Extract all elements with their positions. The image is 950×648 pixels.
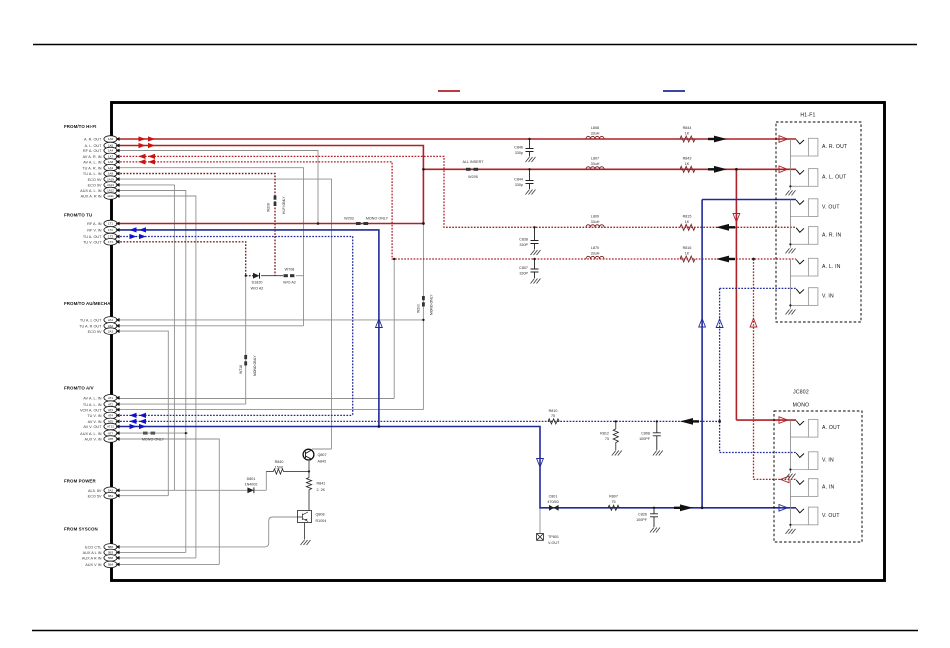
pin 1A4 RF A. OUT xyxy=(83,147,120,154)
svg-text:A. OUT: A. OUT xyxy=(822,425,840,431)
svg-text:D1820: D1820 xyxy=(252,281,263,285)
jack MONO A.IN xyxy=(790,479,834,497)
svg-text:ECO 5V: ECO 5V xyxy=(88,494,102,498)
svg-text:R816: R816 xyxy=(683,246,692,250)
svg-text:1K: 1K xyxy=(685,132,690,136)
svg-text:33uH: 33uH xyxy=(591,220,600,224)
wire V.IN riser blue dashed xyxy=(720,288,796,452)
jumper W206 HI-FI ONLY xyxy=(267,196,287,215)
junction node C844 tap xyxy=(528,168,530,170)
svg-text:330P: 330P xyxy=(519,272,528,276)
pin 1A3 TU A. R. IN xyxy=(82,164,119,171)
svg-text:ALL INSERT: ALL INSERT xyxy=(463,160,485,164)
svg-text:1A9: 1A9 xyxy=(108,172,114,176)
capacitor C801 series xyxy=(547,494,558,510)
junction node base R840 xyxy=(308,470,310,472)
wire V.OUT riser blue xyxy=(702,200,796,508)
arrow blue right AV V.OUT xyxy=(130,424,147,429)
svg-text:6B1: 6B1 xyxy=(108,494,114,498)
svg-text:L809: L809 xyxy=(591,214,599,218)
svg-text:1K: 1K xyxy=(685,220,690,224)
pin 2A3 ECO 9V xyxy=(88,328,120,335)
svg-text:AT4: AT4 xyxy=(108,414,113,418)
junction node R812 tap xyxy=(615,420,617,422)
svg-text:ECO 9V: ECO 9V xyxy=(88,330,102,334)
pin AT2 TU A. L. IN xyxy=(83,401,120,408)
svg-text:V-OUT: V-OUT xyxy=(548,541,560,545)
svg-text:C838: C838 xyxy=(519,238,528,242)
svg-text:FROM/TO TU: FROM/TO TU xyxy=(64,213,92,218)
junction node C826 tap xyxy=(653,507,655,509)
svg-text:ECO 9V: ECO 9V xyxy=(88,184,102,188)
test point TP801 xyxy=(537,534,560,546)
capacitor C844 xyxy=(526,169,534,189)
svg-text:MONO: MONO xyxy=(793,403,810,409)
svg-text:1K: 1K xyxy=(685,252,690,256)
svg-text:L808: L808 xyxy=(591,126,599,130)
pin 5B5 ECO CTL xyxy=(85,544,120,551)
svg-text:TU A. L OUT: TU A. L OUT xyxy=(80,319,102,323)
svg-text:1A6: 1A6 xyxy=(108,137,114,141)
schematic border frame xyxy=(112,103,885,581)
svg-text:RF A. OUT: RF A. OUT xyxy=(83,149,102,153)
wire AV A.L.IN dashed xyxy=(117,162,796,259)
pin 2A19 ECO 9V xyxy=(88,176,120,183)
ground MONO pair2 xyxy=(786,479,796,534)
wire ECO CTL to Q808 gate xyxy=(117,517,298,547)
pin 1A7 AV A. R. IN xyxy=(83,153,120,160)
jack MONO A.OUT xyxy=(790,419,840,437)
svg-text:A. R. OUT: A. R. OUT xyxy=(84,138,102,142)
arrow blue open up RF V.IN riser xyxy=(376,319,383,328)
pin AT12 AV V. OUT xyxy=(83,423,119,430)
svg-text:C801: C801 xyxy=(549,494,558,498)
jumper W203 MONO ONLY xyxy=(344,217,388,225)
jack V.OUT xyxy=(790,199,839,217)
svg-text:D801: D801 xyxy=(247,477,256,481)
wire A.L.OUT branch through W205 xyxy=(423,168,796,170)
svg-text:330P: 330P xyxy=(519,243,528,247)
svg-text:AV A. R. IN: AV A. R. IN xyxy=(83,155,102,159)
diode D801 xyxy=(245,477,258,493)
svg-text:Q807: Q807 xyxy=(318,453,327,457)
svg-text:330p: 330p xyxy=(515,151,523,155)
svg-text:TP801: TP801 xyxy=(548,535,559,539)
svg-text:FROM/TO AU/MECHA: FROM/TO AU/MECHA xyxy=(64,301,111,306)
svg-text:470/50: 470/50 xyxy=(547,500,558,504)
wire AUX A.L.IN to SYSCON AUX A L IN xyxy=(117,191,186,553)
svg-text:W718: W718 xyxy=(239,365,243,374)
wire TU A.L.IN AT2 row xyxy=(117,276,246,404)
wire TU A.R.IN to TU A.R OUT xyxy=(117,168,304,326)
wire AUX V.IN AT8 to SYSCON AUX V IN xyxy=(117,439,219,564)
pin 1A6 A. R. OUT xyxy=(84,136,120,143)
svg-text:AL5. 8V: AL5. 8V xyxy=(88,489,102,493)
svg-text:RF A. IN: RF A. IN xyxy=(87,222,102,226)
svg-text:5B3: 5B3 xyxy=(108,551,114,555)
arrow black left A.L.IN xyxy=(716,256,735,263)
svg-text:R841: R841 xyxy=(317,481,326,485)
svg-text:AUX V IN: AUX V IN xyxy=(85,563,102,567)
jumper W708 xyxy=(283,267,296,284)
ground jack pair2 xyxy=(786,200,796,254)
resistor R844 xyxy=(680,126,695,142)
ground jack pair3 xyxy=(786,259,796,315)
pin 2A13 ECO 9V xyxy=(88,182,120,189)
jack MONO V.OUT xyxy=(790,507,839,525)
svg-text:33uH: 33uH xyxy=(591,252,600,256)
svg-text:AT8: AT8 xyxy=(108,437,113,441)
wire AUX A.R.IN to SYSCON AUX A R IN xyxy=(117,196,196,558)
wire RF A.IN red row xyxy=(117,223,423,225)
ground MONO pair1 xyxy=(786,420,796,479)
svg-text:W708: W708 xyxy=(285,267,295,271)
inductor L809 xyxy=(586,214,604,227)
pin 5B4 AUX V IN xyxy=(85,561,119,568)
svg-text:MONO ONLY: MONO ONLY xyxy=(366,217,389,221)
wire RF V.IN blue xyxy=(117,230,379,427)
wire AV V.OUT blue xyxy=(117,427,796,508)
svg-text:TU V. IN: TU V. IN xyxy=(87,414,101,418)
arrows red double left AV A.L.IN xyxy=(139,159,156,164)
wire AUX A.L.IN AT7 row to Q808 xyxy=(117,432,188,434)
arrows red double right row1 xyxy=(139,136,156,141)
svg-text:V. IN: V. IN xyxy=(822,293,834,299)
svg-text:W206: W206 xyxy=(267,203,271,212)
pin 1A5 A. L. OUT xyxy=(85,142,120,149)
arrows red double right row2 xyxy=(139,143,156,148)
junction node A.L.OUT branch xyxy=(735,168,738,171)
svg-text:AT7: AT7 xyxy=(108,431,113,435)
svg-text:AV V. OUT: AV V. OUT xyxy=(83,425,102,429)
svg-text:JC802: JC802 xyxy=(793,390,809,396)
svg-text:75: 75 xyxy=(551,414,555,418)
svg-text:FROM SYSCON: FROM SYSCON xyxy=(64,527,98,532)
svg-text:RF V. IN: RF V. IN xyxy=(87,229,101,233)
transistor Q807 xyxy=(303,449,326,463)
svg-text:Q808: Q808 xyxy=(316,513,325,517)
resistor R843 xyxy=(680,156,695,172)
junction node C807 tap xyxy=(533,258,535,260)
svg-text:5B4: 5B4 xyxy=(108,563,114,567)
wire Q808 to ground xyxy=(304,523,306,540)
capacitor C826 xyxy=(650,508,658,527)
arrow black right A.R.OUT xyxy=(708,136,727,143)
arrow black right A.L.OUT xyxy=(708,166,727,173)
svg-text:2A19: 2A19 xyxy=(107,177,114,181)
arrow black right V.OUT MONO xyxy=(674,504,693,511)
svg-text:W/O A2: W/O A2 xyxy=(283,281,296,285)
svg-text:A. L. OUT: A. L. OUT xyxy=(85,144,103,148)
svg-text:A843: A843 xyxy=(318,460,327,464)
svg-text:AUX A L IN: AUX A L IN xyxy=(83,551,102,555)
bottom rule xyxy=(32,630,918,632)
junction node C838 tap xyxy=(533,226,535,228)
resistor R812 shunt xyxy=(600,421,618,450)
svg-text:1A3: 1A3 xyxy=(108,166,114,170)
svg-text:R807: R807 xyxy=(609,494,618,498)
svg-text:C808: C808 xyxy=(641,432,650,436)
jack A.R.OUT xyxy=(790,138,847,156)
svg-text:1T3: 1T3 xyxy=(108,235,113,239)
wire A.L.OUT red row2 with step down xyxy=(117,146,423,224)
top rule xyxy=(33,44,917,46)
transistor Q808 xyxy=(298,511,327,524)
svg-text:AUX A. L. IN: AUX A. L. IN xyxy=(80,432,102,436)
svg-text:75: 75 xyxy=(605,437,609,441)
svg-text:FROM POWER: FROM POWER xyxy=(64,479,96,484)
junction node AT7 riser tie xyxy=(185,432,187,434)
svg-text:1K: 1K xyxy=(685,162,690,166)
svg-text:R810: R810 xyxy=(549,409,558,413)
jack V.IN xyxy=(790,288,834,306)
svg-text:TU V. OUT: TU V. OUT xyxy=(83,241,102,245)
arrow red open right MONO A.OUT jack xyxy=(779,417,788,424)
svg-text:R812: R812 xyxy=(600,432,609,436)
arrow blue open down AV V.OUT riser xyxy=(537,459,544,468)
capacitor C846 xyxy=(526,139,534,157)
resistor R807 series xyxy=(608,494,619,510)
jack MONO V.IN xyxy=(790,452,834,470)
pin AT5 AV V. IN xyxy=(88,418,120,425)
junction node AT2 drop xyxy=(245,275,247,277)
svg-text:75: 75 xyxy=(611,500,615,504)
wire RF A.OUT to RF A.IN junction xyxy=(117,151,318,224)
pin 1T1 RF A. IN xyxy=(87,220,119,227)
svg-text:R815: R815 xyxy=(683,214,692,218)
junction node RF A.OUT tie xyxy=(317,222,320,225)
arrows blue double right TU A.OUT xyxy=(130,234,147,239)
inductor L808 xyxy=(586,126,604,139)
svg-text:150K: 150K xyxy=(275,465,284,469)
junction node TU A.L OUT tie xyxy=(422,319,424,321)
wire D1820 to W708 link xyxy=(261,275,283,277)
resistor R816 xyxy=(680,246,695,262)
svg-text:AUX A R IN: AUX A R IN xyxy=(82,557,102,561)
svg-text:A. IN: A. IN xyxy=(822,484,834,490)
svg-text:R840: R840 xyxy=(275,460,284,464)
legend red audio line xyxy=(438,90,460,92)
capacitor C807 xyxy=(531,259,539,278)
svg-text:W203: W203 xyxy=(344,217,354,221)
svg-text:1A12: 1A12 xyxy=(107,189,114,193)
pin 5B8 AUX A R IN xyxy=(82,555,120,562)
junction node AT1 riser xyxy=(393,258,395,260)
svg-text:100PF: 100PF xyxy=(636,518,648,522)
pin 5B3 AUX A L IN xyxy=(83,549,120,556)
arrow red open left MONO A.IN jack xyxy=(781,476,790,483)
svg-text:V. OUT: V. OUT xyxy=(822,513,840,519)
svg-text:VCR A. OUT: VCR A. OUT xyxy=(80,408,102,412)
wire AV V.IN blue dashed xyxy=(117,420,720,422)
svg-text:TU A. R OUT: TU A. R OUT xyxy=(79,325,102,329)
svg-text:1N4002: 1N4002 xyxy=(245,483,258,487)
junction node V.OUT MONO xyxy=(701,506,704,509)
wire A.R.OUT red row1 xyxy=(117,139,796,420)
arrows blue double left RF V.IN xyxy=(130,227,147,232)
pin 1T4 TU V. OUT xyxy=(83,239,120,246)
arrows blue double left AV V.IN xyxy=(130,419,147,424)
svg-text:FROM/TO A/V: FROM/TO A/V xyxy=(64,386,94,391)
inductor L807 xyxy=(586,156,604,169)
junction node W205 branch xyxy=(422,168,425,171)
arrow blue open up V.IN riser xyxy=(716,319,723,328)
svg-text:TU A. R. IN: TU A. R. IN xyxy=(82,166,101,170)
pin 1A9 TU A. L. IN xyxy=(83,170,120,177)
wire ECO 9V to Q807 collector xyxy=(117,179,332,449)
svg-text:A. L. OUT: A. L. OUT xyxy=(822,174,846,180)
arrow red open down A.OUT riser xyxy=(733,214,740,223)
svg-text:AT2: AT2 xyxy=(108,402,113,406)
wire A.L.OUT to MONO A.OUT vertical xyxy=(736,169,796,420)
svg-text:A. R. OUT: A. R. OUT xyxy=(822,144,847,150)
svg-text:AT12: AT12 xyxy=(107,425,114,429)
jumper W205 ALL INSERT xyxy=(463,160,485,179)
connector box H1-F1 xyxy=(776,113,861,323)
junction node V.IN dashed cross xyxy=(718,420,721,423)
svg-text:A. L. IN: A. L. IN xyxy=(822,264,841,270)
pin 1T3 TU A. OUT xyxy=(83,233,120,240)
jumper W200 MONO ONLY xyxy=(417,294,434,315)
legend blue video line xyxy=(663,90,685,92)
pin 2A2 TU A. R OUT xyxy=(79,323,119,330)
svg-text:MONO ONLY: MONO ONLY xyxy=(142,437,165,441)
svg-text:TU A. L. IN: TU A. L. IN xyxy=(83,403,102,407)
capacitor C808 xyxy=(653,421,661,450)
svg-text:2A1: 2A1 xyxy=(108,318,114,322)
svg-text:1A8: 1A8 xyxy=(108,160,114,164)
jack A.L.IN xyxy=(790,258,840,276)
svg-text:MONO ONLY: MONO ONLY xyxy=(253,355,257,376)
wire TU V.OUT darkred dashed xyxy=(117,242,253,276)
svg-text:AT1: AT1 xyxy=(108,396,113,400)
wire Q807 emitter xyxy=(308,460,310,478)
junction node RF A.IN xyxy=(422,222,425,225)
diode D1820 xyxy=(251,273,264,291)
svg-text:V. IN: V. IN xyxy=(822,458,834,464)
svg-text:AUX A. L. IN: AUX A. L. IN xyxy=(80,189,102,193)
svg-text:W/O A2: W/O A2 xyxy=(251,287,264,291)
svg-text:R1004: R1004 xyxy=(316,519,327,523)
arrow red open up A.IN riser xyxy=(750,319,757,328)
resistor R810 series on AV V.IN xyxy=(548,409,559,424)
svg-text:2. 2K: 2. 2K xyxy=(317,488,326,492)
svg-text:AV A. L. IN: AV A. L. IN xyxy=(83,161,102,165)
svg-text:TU A. OUT: TU A. OUT xyxy=(83,235,102,239)
svg-text:330p: 330p xyxy=(515,183,523,187)
resistor R815 xyxy=(680,214,695,230)
wire VCR A.OUT row xyxy=(117,409,423,411)
svg-text:AUX V. IN: AUX V. IN xyxy=(85,438,102,442)
pin 1A11 AUX A. R IN xyxy=(81,193,120,200)
arrow black left A.R.IN xyxy=(716,224,735,231)
svg-text:MONO ONLY: MONO ONLY xyxy=(430,294,434,315)
svg-text:100PF: 100PF xyxy=(639,437,651,441)
svg-text:AV A. L. IN: AV A. L. IN xyxy=(83,397,102,401)
wire TP801 lead xyxy=(539,508,541,534)
resistor R841 xyxy=(306,478,325,511)
svg-text:A. R. IN: A. R. IN xyxy=(822,232,842,238)
jumper W718 MONO ONLY xyxy=(239,355,257,376)
arrow red open right A.R.OUT jack xyxy=(779,136,788,143)
svg-text:ECO CTL: ECO CTL xyxy=(85,546,101,550)
svg-text:5B8: 5B8 xyxy=(108,556,114,560)
svg-text:HI-FI ONLY: HI-FI ONLY xyxy=(282,196,286,214)
junction node C846 tap xyxy=(528,138,530,140)
arrows blue double left TU V.IN xyxy=(130,413,147,418)
svg-text:1A4: 1A4 xyxy=(108,149,114,153)
jack A.L.OUT xyxy=(790,169,846,187)
svg-text:L870: L870 xyxy=(591,246,599,250)
svg-text:V. OUT: V. OUT xyxy=(822,205,840,211)
pin 6B1 ECO 5V xyxy=(88,492,120,499)
arrow black left AV V.IN xyxy=(680,418,699,425)
pin AT4 TU V. IN xyxy=(87,412,119,419)
wire A.L.IN to MONO A.IN dashed vertical xyxy=(754,259,797,479)
resistor R840 xyxy=(266,460,309,474)
svg-text:1A11: 1A11 xyxy=(107,194,114,198)
wire TU A.L OUT to W200 node xyxy=(117,224,423,410)
wire TU A.L.IN darkred dashed xyxy=(117,174,275,276)
svg-text:1T4: 1T4 xyxy=(108,240,113,244)
wire AV A.R.IN dashed xyxy=(117,156,796,227)
junction node C808 tap xyxy=(656,420,658,422)
pin AT8 AUX V. IN xyxy=(85,436,120,443)
wire TU A.OUT to TU V.IN blue dashed xyxy=(117,237,353,416)
svg-text:L807: L807 xyxy=(591,156,599,160)
svg-text:C844: C844 xyxy=(514,178,523,182)
svg-text:5B5: 5B5 xyxy=(108,545,114,549)
capacitor C838 xyxy=(531,227,539,249)
pin 1A8 AV A. L. IN xyxy=(83,159,119,166)
wire AL5.8V row xyxy=(117,472,266,491)
svg-text:AT3: AT3 xyxy=(108,408,113,412)
svg-text:H1-F1: H1-F1 xyxy=(800,113,815,119)
svg-text:C807: C807 xyxy=(519,266,528,270)
connector box JC802 MONO xyxy=(774,390,862,543)
wire ECO 9V to AL5.8V xyxy=(117,185,174,490)
svg-text:5A2: 5A2 xyxy=(108,489,114,493)
svg-text:W205: W205 xyxy=(468,175,478,179)
wire AV A.L.IN AT1 row xyxy=(117,259,394,399)
svg-text:ECO 9V: ECO 9V xyxy=(88,178,102,182)
svg-text:AUX A. R IN: AUX A. R IN xyxy=(81,195,102,199)
svg-text:1A7: 1A7 xyxy=(108,155,114,159)
svg-text:R844: R844 xyxy=(683,126,692,130)
pin AT7 AUX A. L. IN xyxy=(80,430,119,437)
svg-text:C846: C846 xyxy=(514,146,523,150)
wire W708 output to node xyxy=(296,275,304,277)
svg-text:33uH: 33uH xyxy=(591,132,600,136)
pin AT3 VCR A. OUT xyxy=(80,406,120,413)
pin AT1 AV A. L. IN xyxy=(83,395,119,402)
svg-text:1T2: 1T2 xyxy=(108,228,113,232)
arrow blue open right MONO V.OUT jack xyxy=(779,505,788,512)
pin 2A1 TU A. L OUT xyxy=(80,317,120,324)
arrows red double left AV A.R.IN xyxy=(139,154,156,159)
svg-text:AV V. IN: AV V. IN xyxy=(88,420,102,424)
svg-text:1T1: 1T1 xyxy=(108,222,113,226)
ground Q808 xyxy=(301,540,311,545)
junction node AV V.OUT riser xyxy=(378,425,381,428)
arrow blue open up V.OUT riser xyxy=(699,319,706,328)
pin 1A12 AUX A. L. IN xyxy=(80,187,119,194)
svg-text:FROM/TO HI-FI: FROM/TO HI-FI xyxy=(64,124,96,129)
inductor L870 xyxy=(586,246,604,259)
svg-text:2A2: 2A2 xyxy=(108,324,114,328)
ground jack pair1 xyxy=(786,139,796,195)
jack A.R.IN xyxy=(790,227,841,245)
